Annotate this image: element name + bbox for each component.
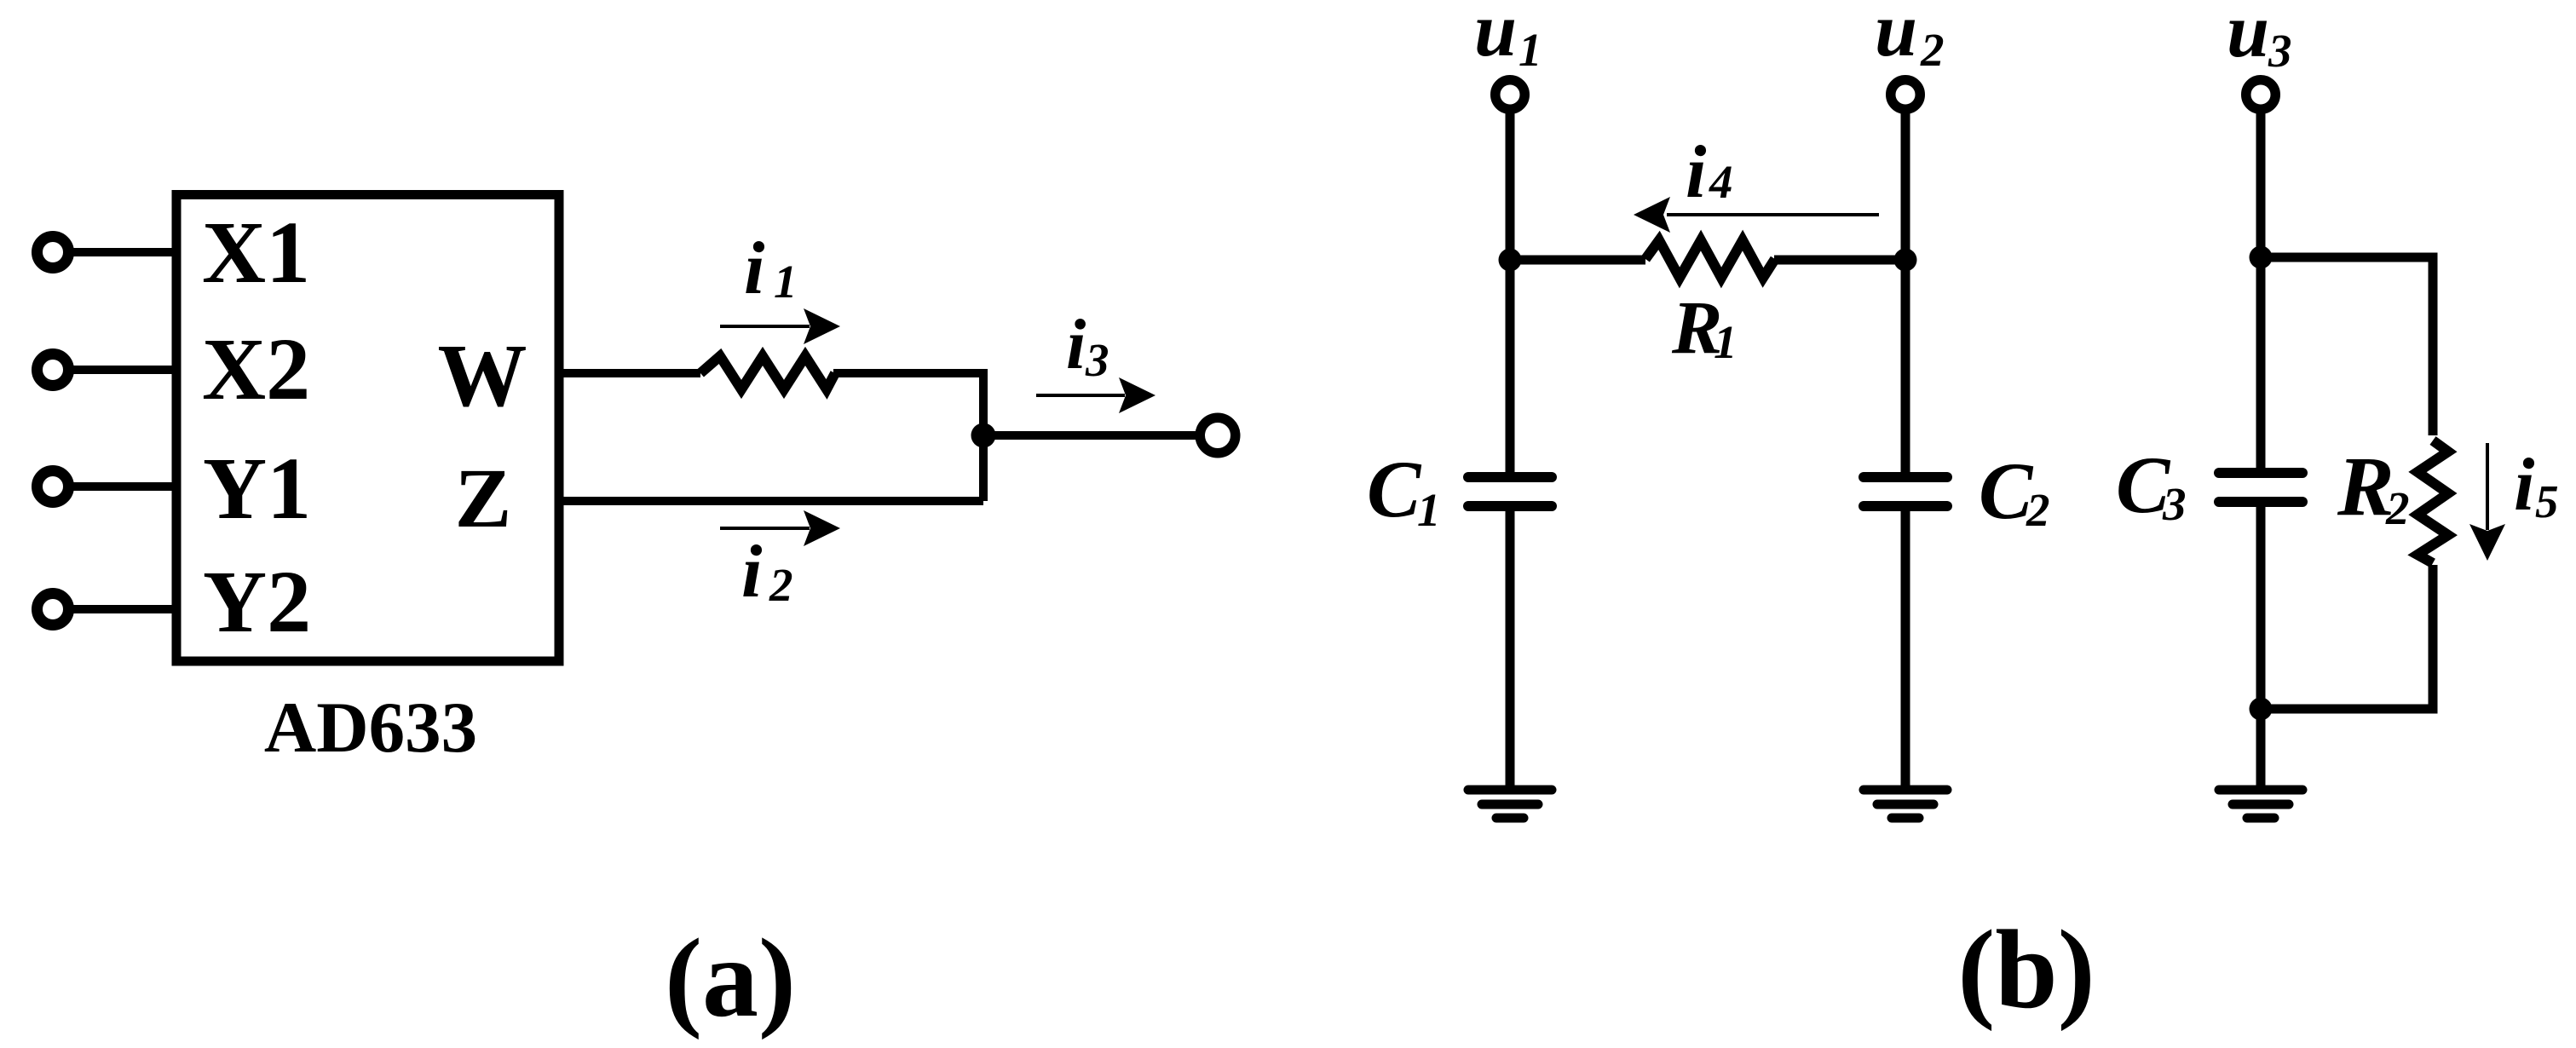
wire resistor to corner xyxy=(833,373,983,501)
svg-text:(a): (a) xyxy=(665,915,796,1040)
wire branch to R2 top xyxy=(2261,257,2433,435)
ground (C1) xyxy=(1468,790,1552,818)
svg-text:X1: X1 xyxy=(202,204,310,302)
current arrow i3 xyxy=(1036,377,1155,413)
svg-text:i: i xyxy=(741,531,763,613)
node u1 top xyxy=(1474,0,1542,109)
terminal X1 xyxy=(37,237,69,268)
wire C2 to ground xyxy=(1901,511,1910,789)
op-amp U1 AD633 multiplier box xyxy=(176,195,559,662)
svg-text:2: 2 xyxy=(1920,24,1945,76)
current arrow i1 xyxy=(720,308,840,344)
wire X1 xyxy=(68,248,181,256)
current arrow i4 xyxy=(1634,197,1879,233)
capacitor C2 xyxy=(1864,477,1947,506)
svg-text:3: 3 xyxy=(1085,334,1109,386)
svg-text:u: u xyxy=(1474,0,1517,72)
resistor R2 xyxy=(2418,441,2448,563)
node junction bottom u3 xyxy=(2250,698,2273,721)
capacitor C3 xyxy=(2219,473,2302,502)
svg-text:Z: Z xyxy=(455,451,512,545)
ground (u3) xyxy=(2219,790,2302,818)
resistor (W output series) xyxy=(700,356,835,389)
node u2 top xyxy=(1875,0,1945,109)
current arrow i2 xyxy=(720,510,840,546)
wire u1 down xyxy=(1506,110,1515,477)
node junction u2/R1 xyxy=(1894,249,1917,272)
wire R1 left xyxy=(1510,256,1645,265)
terminal Y1 xyxy=(37,471,69,503)
svg-text:3: 3 xyxy=(2162,478,2187,530)
ground (C2) xyxy=(1864,790,1947,818)
svg-text:1: 1 xyxy=(1519,24,1542,76)
svg-text:i: i xyxy=(2514,444,2535,527)
node junction (a) xyxy=(971,423,996,448)
svg-text:2: 2 xyxy=(769,559,793,611)
svg-text:(b): (b) xyxy=(1957,907,2095,1032)
wire R1 right xyxy=(1774,256,1905,265)
capacitor C1 xyxy=(1468,477,1552,506)
wire C3 down xyxy=(2256,507,2266,789)
node u3 top xyxy=(2227,0,2292,109)
svg-text:W: W xyxy=(438,325,527,425)
terminal Y2 xyxy=(37,594,69,625)
node junction u1/R1 xyxy=(1499,249,1522,272)
wire u2 down xyxy=(1901,110,1910,477)
wire Y1 xyxy=(68,482,181,491)
wire X2 xyxy=(68,366,181,374)
resistor R1 xyxy=(1645,240,1775,278)
wire Z output xyxy=(559,497,983,505)
wire C1 to ground xyxy=(1506,511,1515,789)
terminal u2 xyxy=(1891,80,1921,110)
svg-text:1: 1 xyxy=(774,256,798,308)
terminal u3 xyxy=(2246,80,2276,110)
svg-text:u: u xyxy=(1875,0,1917,72)
svg-text:i: i xyxy=(1686,131,1707,214)
wire output i3 xyxy=(983,431,1200,440)
svg-text:Y1: Y1 xyxy=(203,440,311,538)
terminal output (a) xyxy=(1200,417,1236,453)
svg-text:Y2: Y2 xyxy=(203,553,311,651)
terminal X2 xyxy=(37,354,69,386)
svg-text:2: 2 xyxy=(2026,484,2050,536)
svg-text:1: 1 xyxy=(1417,484,1441,536)
wire R2 bottom xyxy=(2261,565,2433,709)
svg-text:5: 5 xyxy=(2535,475,2559,527)
svg-text:i: i xyxy=(1066,305,1086,384)
wire W output xyxy=(559,369,700,377)
svg-text:i: i xyxy=(744,227,765,310)
svg-text:X2: X2 xyxy=(202,320,310,418)
terminal u1 xyxy=(1495,80,1525,110)
node junction u3 top xyxy=(2250,246,2273,269)
wire Y2 xyxy=(68,605,181,613)
svg-text:C: C xyxy=(1367,444,1422,534)
svg-text:4: 4 xyxy=(1709,156,1733,208)
svg-text:1: 1 xyxy=(1714,316,1738,368)
svg-text:2: 2 xyxy=(2385,482,2410,534)
svg-text:AD633: AD633 xyxy=(264,688,477,768)
svg-text:u: u xyxy=(2227,0,2269,73)
svg-text:3: 3 xyxy=(2268,25,2292,77)
wire u3 down xyxy=(2256,110,2266,473)
current arrow i5 xyxy=(2469,443,2505,561)
